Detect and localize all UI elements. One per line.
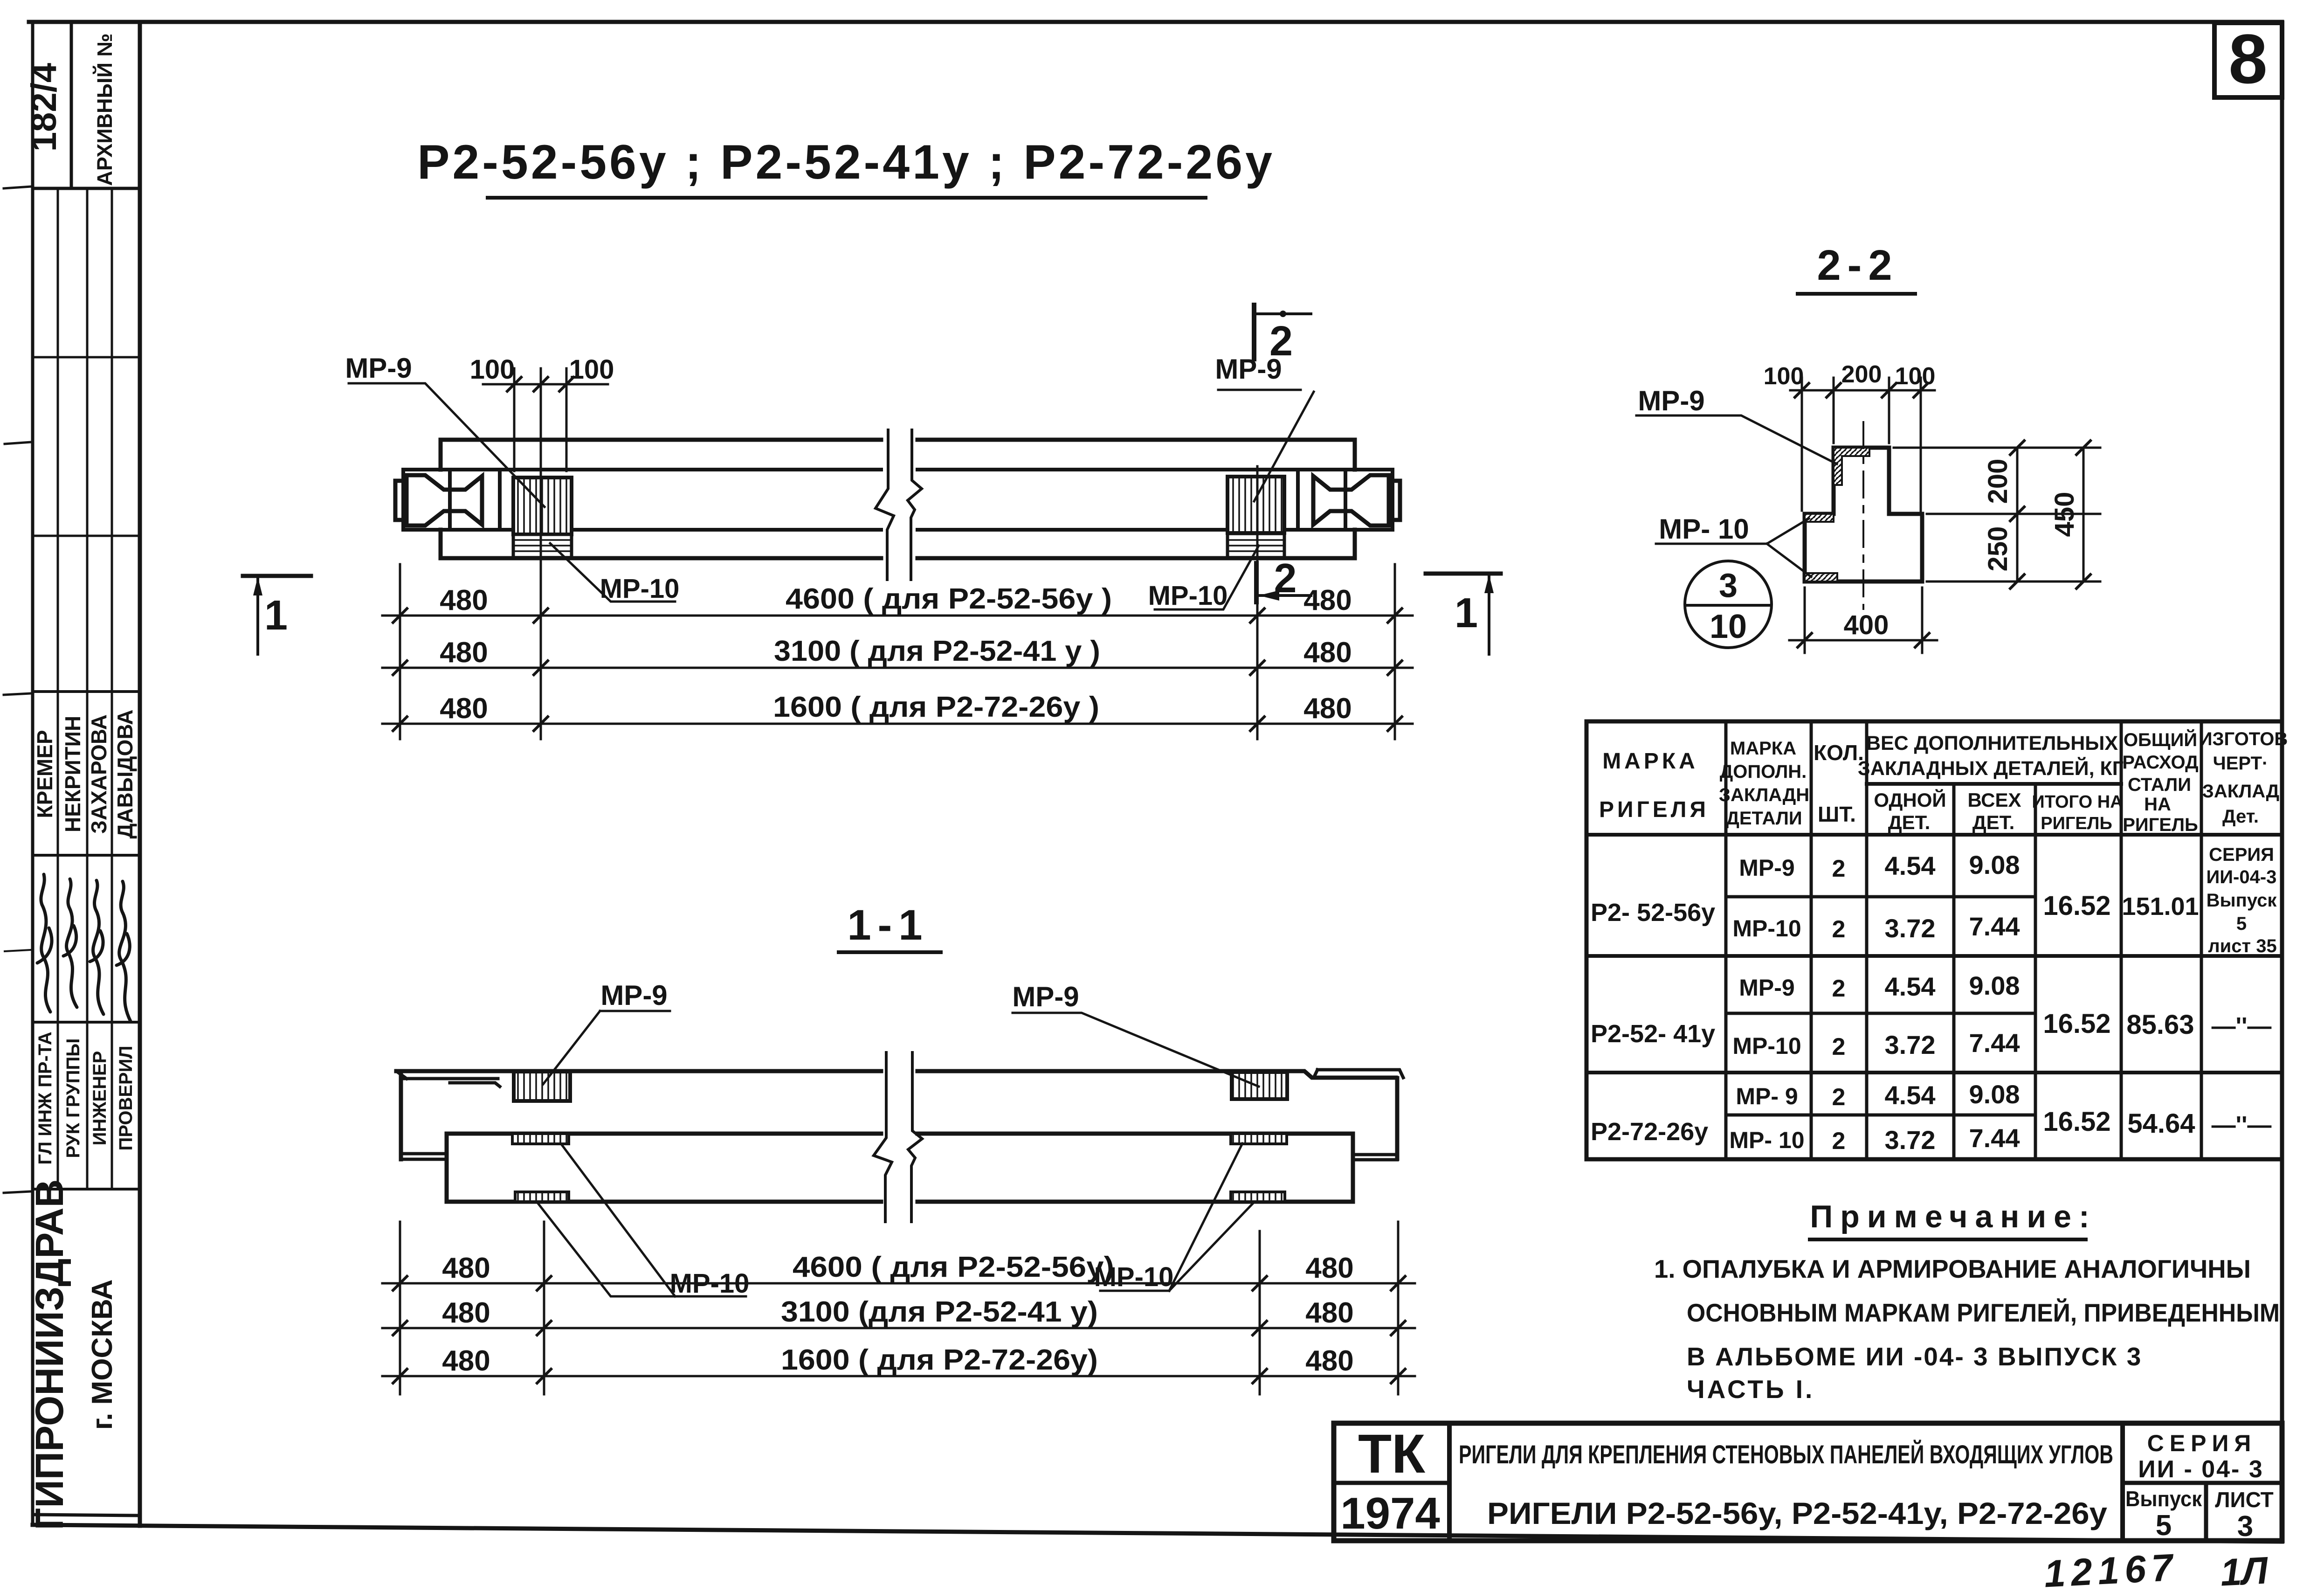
svg-text:3.72: 3.72: [1885, 1125, 1936, 1155]
stamp sub column line A: [57, 188, 59, 1189]
title block series divider: [2120, 1423, 2125, 1541]
svg-text:СЕРИЯ: СЕРИЯ: [2147, 1430, 2257, 1456]
sect22 right extension top: [1894, 447, 2100, 449]
svg-text:МР- 9: МР- 9: [1736, 1083, 1798, 1109]
extension line left end: [399, 564, 401, 739]
svg-text:200: 200: [1983, 459, 2013, 504]
1-1 break line right: [908, 1052, 922, 1222]
svg-text:400: 400: [1844, 610, 1889, 640]
stamp row line y404: [33, 187, 140, 190]
sheet right border: [2280, 22, 2284, 1542]
svg-text:4.54: 4.54: [1885, 851, 1936, 880]
svg-text:3100 (для Р2-52-41 у): 3100 (для Р2-52-41 у): [781, 1296, 1098, 1328]
svg-text:4600 ( для Р2-52-56у ): 4600 ( для Р2-52-56у ): [786, 583, 1112, 615]
svg-text:1: 1: [264, 592, 288, 639]
svg-text:РИГЕЛЯ: РИГЕЛЯ: [1599, 797, 1709, 822]
svg-text:ИИ-04-3: ИИ-04-3: [2207, 867, 2277, 887]
svg-text:ВСЕХ: ВСЕХ: [1967, 789, 2021, 811]
svg-text:1: 1: [1455, 590, 1478, 637]
sect22 right dim ticks: [2010, 441, 2090, 588]
sect22 dim line 200-250: [2016, 448, 2019, 581]
stamp sub column line B: [86, 188, 89, 1189]
leader MP-9 left: [349, 383, 545, 507]
svg-text:МР-10: МР-10: [600, 574, 680, 604]
1-1 dim ticks row1: [393, 1276, 1405, 1290]
sect22 top dimension line: [1790, 389, 1935, 392]
leader MP-10 left: [550, 543, 675, 602]
svg-text:9.08: 9.08: [1969, 971, 2020, 1000]
left end zone divider: [498, 470, 502, 530]
left flange edge: [401, 470, 405, 530]
sheet top border: [29, 20, 2282, 24]
svg-text:ДЕТАЛИ: ДЕТАЛИ: [1726, 808, 1802, 829]
table outer border: [1586, 721, 2282, 1159]
svg-text:3.72: 3.72: [1885, 1030, 1936, 1059]
svg-text:2: 2: [1832, 1033, 1846, 1060]
beam plan inner line lower: [403, 528, 1393, 532]
table col line 3: [1865, 721, 1869, 1159]
right end zone divider: [1296, 470, 1300, 530]
1-1 extension left plate centre: [543, 1222, 545, 1394]
svg-text:МР-9: МР-9: [600, 980, 667, 1011]
svg-text:МАРКА: МАРКА: [1730, 738, 1796, 759]
svg-text:Р2-72-26у: Р2-72-26у: [1591, 1118, 1708, 1146]
section 2-2 MP-9 angle plate: [1834, 448, 1869, 485]
title block outer border: [1334, 1423, 2282, 1541]
table row line g2 inner: [1726, 1012, 2035, 1015]
svg-text:7.44: 7.44: [1969, 1028, 2020, 1058]
svg-text:ОСНОВНЫМ МАРКАМ РИГЕЛЕЙ, ПРИВЕ: ОСНОВНЫМ МАРКАМ РИГЕЛЕЙ, ПРИВЕДЕННЫМ: [1687, 1298, 2280, 1327]
table col line 1: [1724, 721, 1728, 1159]
right connector dog-bone: [1313, 475, 1389, 526]
svg-text:НЕКРИТИН: НЕКРИТИН: [61, 716, 85, 832]
stamp column right edge: [138, 22, 142, 1526]
1-1 break line left: [874, 1052, 892, 1222]
section 2-2 MP-10 step plate: [1805, 514, 1834, 522]
1-1 leader MP-10 right: [1100, 1143, 1254, 1291]
svg-text:16.52: 16.52: [2043, 1009, 2110, 1039]
svg-text:Р2- 52-56у: Р2- 52-56у: [1591, 899, 1715, 927]
svg-text:ДЕТ.: ДЕТ.: [1972, 811, 2015, 833]
svg-text:1600 ( для Р2-72-26у): 1600 ( для Р2-72-26у): [781, 1344, 1098, 1376]
svg-text:ВЕС ДОПОЛНИТЕЛЬНЫХ: ВЕС ДОПОЛНИТЕЛЬНЫХ: [1866, 732, 2118, 754]
table col line 2: [1810, 721, 1813, 1159]
extension line left plate centre: [540, 368, 542, 739]
svg-text:2: 2: [1269, 318, 1293, 365]
1-1 dim row2 line: [382, 1327, 1415, 1329]
right connector tip plate: [1389, 481, 1400, 520]
stamp divider archive cell: [70, 22, 73, 188]
svg-text:480: 480: [1303, 692, 1352, 725]
table group line 2: [1586, 1071, 2282, 1074]
svg-text:16.52: 16.52: [2043, 1107, 2110, 1137]
svg-text:1-1: 1-1: [848, 901, 929, 949]
svg-text:ОДНОЙ: ОДНОЙ: [1874, 789, 1946, 811]
svg-text:ЧАСТЬ I.: ЧАСТЬ I.: [1687, 1375, 1814, 1404]
sect22 dim line 450: [2083, 448, 2085, 581]
1-1 body left edge: [445, 1134, 449, 1202]
beam plan right outer edge: [1353, 440, 1357, 558]
svg-text:100: 100: [569, 354, 614, 385]
1-1 dim ticks row3: [393, 1369, 1405, 1383]
table header bottom: [1586, 833, 2282, 837]
svg-text:480: 480: [442, 1345, 490, 1377]
svg-text:ИНЖЕНЕР: ИНЖЕНЕР: [90, 1051, 110, 1146]
break line left: [876, 430, 894, 580]
embedded plate MP-9 right (plan): [1228, 477, 1284, 533]
svg-text:АРХИВНЫЙ №: АРХИВНЫЙ №: [93, 33, 117, 186]
leader MP-9 right: [1218, 390, 1314, 501]
svg-text:МР-9: МР-9: [1739, 855, 1794, 881]
svg-text:480: 480: [442, 1252, 490, 1284]
table row line g1 inner: [1726, 895, 2035, 899]
dim ticks row1: [393, 609, 1402, 623]
svg-text:—''—: —''—: [2212, 1112, 2272, 1139]
1-1 body top edge: [447, 1132, 1353, 1136]
svg-text:2: 2: [1274, 555, 1297, 601]
svg-text:450: 450: [2049, 492, 2080, 537]
beam plan outer bottom edge: [441, 556, 1355, 561]
svg-text:ИТОГО НА: ИТОГО НА: [2032, 792, 2123, 812]
svg-text:10: 10: [1710, 608, 1747, 645]
section 2-2 MP-10 bottom plate: [1805, 573, 1837, 581]
archive punch mark 1: [4, 187, 31, 188]
left connector tip plate: [395, 481, 407, 520]
svg-text:ЗАКЛАДН: ЗАКЛАДН: [1719, 785, 1809, 805]
svg-text:МР-10: МР-10: [670, 1268, 750, 1299]
svg-text:РИГЕЛЬ: РИГЕЛЬ: [2041, 814, 2112, 833]
sect22 bottom dimension line: [1789, 639, 1937, 642]
1-1 right cap plate: [1314, 1070, 1403, 1078]
svg-text:8: 8: [2228, 20, 2267, 98]
svg-text:СТАЛИ: СТАЛИ: [2128, 775, 2191, 795]
svg-text:ЧЕРТ·: ЧЕРТ·: [2213, 753, 2269, 774]
section 2-2 title underline: [1796, 292, 1917, 296]
extension line 100 dim right: [565, 368, 568, 471]
dim ticks row2: [393, 661, 1402, 675]
title block TK divider: [1447, 1423, 1452, 1541]
svg-text:ШТ.: ШТ.: [1818, 802, 1856, 826]
svg-text:100: 100: [470, 354, 515, 385]
svg-text:ДАВЫДОВА: ДАВЫДОВА: [113, 710, 137, 839]
break line right: [908, 430, 922, 580]
embedded plate MP-10 right (plan): [1228, 533, 1284, 558]
signature 2: [63, 879, 77, 1007]
svg-text:100: 100: [1895, 363, 1936, 390]
dim ticks top: [507, 377, 573, 391]
right connector waist divider: [1344, 470, 1347, 530]
left connector dog-bone: [407, 475, 482, 526]
svg-text:ЗАКЛАДНЫХ ДЕТАЛЕЙ, КГ: ЗАКЛАДНЫХ ДЕТАЛЕЙ, КГ: [1858, 757, 2124, 780]
svg-text:250: 250: [1983, 526, 2013, 572]
dim row 2 line: [382, 667, 1413, 669]
svg-text:Дет.: Дет.: [2222, 806, 2259, 827]
1-1 right outer edge: [1395, 1078, 1400, 1159]
svg-text:480: 480: [440, 584, 488, 616]
sheet number box: [2214, 23, 2282, 97]
svg-text:480: 480: [440, 692, 488, 725]
dim row 1 line: [382, 615, 1413, 617]
svg-text:2: 2: [1832, 916, 1846, 943]
svg-text:МР-9: МР-9: [1638, 385, 1704, 416]
1-1 leader MP-10 left: [537, 1145, 746, 1296]
1-1 dim row1 line: [382, 1282, 1415, 1285]
1-1 body bottom edge: [447, 1200, 1353, 1204]
svg-text:лист 35: лист 35: [2208, 936, 2276, 956]
svg-text:7.44: 7.44: [1969, 912, 2020, 941]
note title underline: [1808, 1238, 2088, 1241]
archive punch mark 2: [5, 442, 31, 444]
extension line right plate centre: [1256, 466, 1259, 739]
svg-text:2: 2: [1832, 855, 1846, 882]
svg-text:480: 480: [1305, 1297, 1353, 1329]
svg-text:Р2-52- 41у: Р2-52- 41у: [1591, 1020, 1715, 1048]
archive punch mark 5: [4, 1191, 31, 1193]
svg-text:1600 ( для Р2-72-26у ): 1600 ( для Р2-72-26у ): [773, 691, 1099, 723]
section mark 2 bottom: [1256, 563, 1311, 602]
table span header bottom: [1867, 782, 2121, 786]
sect22 top dim ticks: [1795, 383, 1928, 397]
svg-text:480: 480: [1303, 637, 1352, 669]
svg-text:МР-9: МР-9: [345, 353, 412, 384]
title block middle row line right: [2123, 1481, 2282, 1485]
svg-text:3: 3: [2237, 1510, 2253, 1543]
sect22 right extension mid: [1927, 513, 2100, 515]
1-1 left outer edge: [399, 1071, 403, 1159]
svg-text:МР- 10: МР- 10: [1729, 1127, 1804, 1153]
svg-text:Выпуск: Выпуск: [2207, 890, 2277, 911]
svg-text:КРЕМЕР: КРЕМЕР: [33, 730, 57, 818]
1-1 plate MP-9 right: [1232, 1072, 1287, 1099]
1-1 dim ticks row2: [393, 1321, 1405, 1335]
leader MP-10 right: [1155, 546, 1259, 609]
svg-text:54.64: 54.64: [2127, 1108, 2195, 1139]
svg-text:100: 100: [1764, 363, 1804, 390]
1-1 dim row3 line: [382, 1375, 1415, 1377]
table col line 4: [1952, 784, 1956, 1159]
archive punch mark 3: [4, 693, 31, 695]
svg-text:МР-10: МР-10: [1732, 915, 1801, 941]
title block middle row line left: [1334, 1481, 1449, 1485]
svg-text:182/4: 182/4: [24, 63, 64, 152]
left connector waist divider: [448, 470, 452, 530]
svg-text:151.01: 151.01: [2122, 893, 2199, 921]
leader MP-9 sect22: [1636, 415, 1837, 464]
1-1 plate MP-10 left top: [512, 1134, 569, 1144]
sect22 right extension bottom: [1927, 581, 2100, 583]
svg-text:МР-10: МР-10: [1148, 581, 1228, 611]
1-1 extension right end: [1397, 1222, 1400, 1394]
svg-text:3: 3: [1719, 567, 1738, 604]
svg-text:МР- 10: МР- 10: [1659, 513, 1749, 545]
table col line 7: [2200, 721, 2203, 1159]
svg-text:7.44: 7.44: [1969, 1123, 2020, 1153]
svg-text:2-2: 2-2: [1817, 242, 1899, 289]
svg-text:1Л: 1Л: [2219, 1549, 2269, 1592]
svg-text:КОЛ.: КОЛ.: [1814, 741, 1864, 765]
1-1 leader MP-9 right: [1013, 1013, 1259, 1087]
signature 3: [90, 880, 103, 1014]
svg-text:480: 480: [1305, 1345, 1353, 1377]
svg-text:Примечание:: Примечание:: [1810, 1199, 2096, 1234]
extension line right end: [1394, 564, 1396, 739]
svg-text:85.63: 85.63: [2126, 1010, 2194, 1040]
section mark 2 top: [1254, 305, 1311, 359]
svg-text:9.08: 9.08: [1969, 1080, 2020, 1109]
svg-text:3.72: 3.72: [1885, 914, 1936, 943]
table col line 5: [2034, 784, 2037, 1159]
svg-text:МР-10: МР-10: [1732, 1033, 1801, 1059]
svg-text:ЛИСТ: ЛИСТ: [2215, 1488, 2274, 1512]
svg-text:МАРКА: МАРКА: [1602, 749, 1698, 774]
1-1 plate MP-10 left bottom: [515, 1192, 569, 1202]
stamp row line y2192: [33, 1021, 140, 1024]
1-1 extension right plate centre: [1259, 1231, 1261, 1394]
table group line 1: [1586, 954, 2282, 958]
svg-text:НА: НА: [2144, 794, 2171, 815]
section mark 1 left: [243, 576, 311, 654]
1-1 left end chamfer: [396, 1071, 407, 1079]
section 2-2 centreline: [1862, 421, 1864, 610]
extension line 100 dim left: [513, 368, 516, 471]
svg-text:—''—: —''—: [2212, 1013, 2272, 1040]
stamp row line y766: [33, 356, 140, 359]
svg-text:ГЛ ИНЖ ПР-ТА: ГЛ ИНЖ ПР-ТА: [35, 1031, 55, 1164]
svg-text:5: 5: [2236, 914, 2247, 934]
dimension line 100-100: [483, 383, 608, 386]
beam plan inner line upper: [403, 468, 1393, 471]
svg-text:ИЗГОТОВ: ИЗГОТОВ: [2199, 729, 2288, 749]
right flange edge: [1391, 470, 1394, 530]
svg-text:2: 2: [1832, 1128, 1846, 1155]
table col line 6: [2120, 721, 2123, 1159]
svg-text:ДОПОЛН.: ДОПОЛН.: [1720, 761, 1807, 782]
sect22 top dim extension lines: [1801, 378, 1803, 511]
svg-text:2: 2: [1832, 975, 1846, 1002]
svg-text:480: 480: [1305, 1252, 1353, 1284]
svg-text:200: 200: [1841, 361, 1882, 388]
1-1 extension left end: [399, 1222, 401, 1394]
svg-text:МР-9: МР-9: [1012, 981, 1079, 1012]
svg-text:ИИ - 04- 3: ИИ - 04- 3: [2138, 1456, 2263, 1483]
svg-text:3100 ( для Р2-52-41 у ): 3100 ( для Р2-52-41 у ): [774, 635, 1100, 667]
stamp row line y1149: [33, 535, 140, 537]
stamp sub column line C: [111, 188, 113, 1189]
svg-text:РУК ГРУППЫ: РУК ГРУППЫ: [63, 1038, 83, 1158]
svg-text:РИГЕЛИ Р2-52-56у, Р2-52-41у,: РИГЕЛИ Р2-52-56у, Р2-52-41у, Р2-72-26у: [1487, 1496, 2107, 1530]
svg-text:1974: 1974: [1340, 1488, 1440, 1538]
svg-text:4.54: 4.54: [1885, 1080, 1936, 1110]
svg-text:СЕРИЯ: СЕРИЯ: [2209, 844, 2274, 865]
section 1-1 title underline: [837, 950, 943, 954]
section 2-2 body outline: [1805, 448, 1922, 581]
svg-text:12167: 12167: [2043, 1546, 2179, 1592]
sheet bottom border: [33, 1525, 2282, 1542]
stamp row line y1483: [33, 690, 140, 693]
svg-text:4.54: 4.54: [1885, 972, 1936, 1001]
sect22 bottom dim ticks: [1798, 633, 1929, 647]
1-1 leader MP-9 left: [543, 1011, 670, 1084]
signature 4: [117, 881, 131, 1021]
signature 1: [37, 874, 52, 1012]
svg-text:480: 480: [1303, 584, 1352, 616]
dim ticks row3: [393, 717, 1402, 731]
stamp row line y1834: [33, 854, 140, 857]
leader MP-10 sect22: [1656, 519, 1811, 577]
1-1 plate MP-10 right top: [1231, 1134, 1287, 1144]
1-1 left cap plate: [402, 1079, 500, 1087]
svg-text:В АЛЬБОМЕ ИИ -04- 3 ВЫПУСК: В АЛЬБОМЕ ИИ -04- 3 ВЫПУСК 3: [1687, 1342, 2142, 1371]
1-1 right tab: [1353, 1155, 1397, 1160]
1-1 body right edge: [1351, 1134, 1355, 1202]
svg-text:Выпуск: Выпуск: [2125, 1487, 2202, 1511]
embedded plate MP-10 left (plan): [513, 534, 572, 558]
stamp row line y2550: [33, 1188, 140, 1191]
sect22 bottom dim extensions: [1804, 588, 1806, 653]
1-1 left tab: [401, 1154, 447, 1159]
svg-text:Р2-52-56у ; Р2-52-41у ; Р2-72-: Р2-52-56у ; Р2-52-41у ; Р2-72-26у: [417, 135, 1275, 189]
svg-text:1. ОПАЛУБКА И АРМИРОВАНИЕ АНАЛ: 1. ОПАЛУБКА И АРМИРОВАНИЕ АНАЛОГИЧНЫ: [1654, 1254, 2251, 1283]
svg-text:16.52: 16.52: [2043, 891, 2110, 921]
svg-text:ПРОВЕРИЛ: ПРОВЕРИЛ: [116, 1045, 136, 1150]
section mark 1 right: [1426, 574, 1501, 654]
archive punch mark 4: [5, 950, 31, 951]
svg-text:480: 480: [442, 1297, 490, 1329]
table row line g3 inner: [1726, 1114, 2035, 1117]
svg-text:4600 ( для Р2-52-56у): 4600 ( для Р2-52-56у): [793, 1251, 1114, 1283]
svg-text:ДЕТ.: ДЕТ.: [1888, 811, 1931, 833]
title block vypusk list divider: [2204, 1483, 2208, 1541]
1-1 plate MP-10 right bottom: [1231, 1192, 1285, 1202]
1-1 top edge: [396, 1071, 1396, 1078]
svg-text:ЗАХАРОВА: ЗАХАРОВА: [87, 714, 111, 834]
svg-text:ЗАКЛАД.: ЗАКЛАД.: [2202, 781, 2284, 802]
svg-text:ГИПРОНИИЗДРАВ: ГИПРОНИИЗДРАВ: [28, 1179, 71, 1530]
beam plan left outer edge: [439, 440, 443, 558]
svg-text:9.08: 9.08: [1969, 850, 2020, 879]
beam plan outer top edge: [441, 438, 1355, 442]
main title underline: [486, 196, 1207, 200]
embedded plate MP-9 left (plan): [513, 478, 572, 534]
svg-text:480: 480: [440, 637, 488, 669]
svg-text:МР-9: МР-9: [1739, 975, 1794, 1001]
stamp bottom line: [33, 1515, 140, 1516]
detail bubble 3/10: [1685, 561, 1772, 648]
svg-text:РИГЕЛЬ: РИГЕЛЬ: [2123, 815, 2198, 835]
svg-text:2: 2: [1832, 1084, 1846, 1111]
1-1 plate MP-9 left: [514, 1072, 570, 1101]
svg-text:ТК: ТК: [1358, 1423, 1426, 1485]
svg-text:РАСХОД: РАСХОД: [2122, 752, 2198, 773]
svg-text:5: 5: [2156, 1509, 2172, 1542]
svg-text:РИГЕЛИ ДЛЯ КРЕПЛЕНИЯ СТЕНОВЫХ: РИГЕЛИ ДЛЯ КРЕПЛЕНИЯ СТЕНОВЫХ ПАНЕЛЕЙ ВХ…: [1459, 1440, 2113, 1469]
dim row 3 line: [382, 723, 1413, 725]
sheet left border: [31, 22, 34, 1525]
svg-text:г. МОСКВА: г. МОСКВА: [86, 1279, 118, 1430]
svg-text:ОБЩИЙ: ОБЩИЙ: [2124, 729, 2197, 750]
